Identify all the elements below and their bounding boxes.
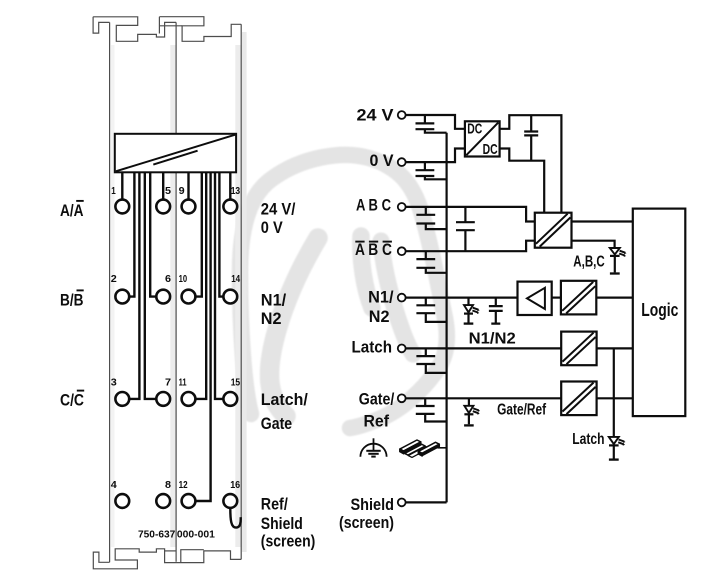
- node ABC: [398, 203, 406, 211]
- module top profile claw B bar left edge: [159, 17, 182, 34]
- svg-text:13: 13: [231, 185, 241, 197]
- node Shield: [398, 499, 406, 507]
- capacitor C3 after DC/DC: [524, 115, 538, 161]
- svg-text:2: 2: [111, 273, 117, 285]
- module part number 750-637 000-001: [138, 529, 215, 540]
- wire A-bar B-bar C-bar input: [405, 241, 534, 252]
- comparator U2: [518, 282, 552, 315]
- module internal wires: [122, 172, 240, 527]
- svg-text:N1/: N1/: [261, 290, 287, 309]
- wire Gate input: [405, 397, 561, 399]
- svg-text:11: 11: [179, 376, 187, 388]
- optocoupler U6 (Gate/Ref): [561, 382, 596, 416]
- wire DC/DC lower output rail: [500, 149, 545, 213]
- LED D2 N1/N2: [464, 298, 480, 324]
- wire opto U6 output to logic: [597, 397, 633, 399]
- svg-text:16: 16: [230, 479, 240, 491]
- wire stub terminal 9: [187, 172, 189, 200]
- wire to terminal 14: [219, 172, 223, 296]
- node Gate: [398, 394, 406, 402]
- svg-text:A B C: A B C: [355, 240, 392, 259]
- module bottom foot center notch top: [165, 550, 177, 552]
- terminal 10: [182, 290, 196, 304]
- terminal 7: [156, 392, 170, 406]
- module top profile claw B: [159, 17, 241, 42]
- shield clamp icon: [400, 440, 447, 457]
- svg-text:A B C: A B C: [356, 195, 391, 214]
- svg-text:3: 3: [111, 376, 117, 388]
- svg-text:1: 1: [111, 185, 116, 197]
- svg-text:Gate: Gate: [261, 414, 292, 433]
- module top profile claw A: [93, 17, 176, 42]
- wire to terminal 7: [145, 172, 157, 399]
- LED D3 Gate/Ref: [464, 398, 480, 425]
- svg-text:24 V: 24 V: [357, 105, 395, 124]
- svg-text:(screen): (screen): [261, 532, 316, 551]
- module bottom foot right notch: [181, 550, 204, 563]
- svg-text:24 V/: 24 V/: [261, 199, 296, 218]
- svg-text:N2: N2: [261, 309, 282, 328]
- wire DC/DC upper output to top rail: [500, 115, 562, 213]
- svg-text:Gate/: Gate/: [359, 389, 395, 408]
- module left wall: [109, 22, 111, 562]
- svg-text:N1/N2: N1/N2: [469, 330, 516, 347]
- terminal 15: [223, 392, 237, 406]
- svg-text:0 V: 0 V: [370, 151, 395, 170]
- svg-text:Latch: Latch: [572, 431, 604, 448]
- module shading: [111, 32, 247, 552]
- svg-text:0 V: 0 V: [261, 218, 283, 237]
- wire to terminal 3: [129, 172, 140, 399]
- svg-text:14: 14: [231, 273, 240, 285]
- capacitor C9 on Latch: [416, 348, 446, 373]
- svg-text:6: 6: [165, 273, 171, 285]
- terminal 8: [156, 494, 170, 508]
- module bottom foot profile: [93, 549, 241, 569]
- ground symbol: [360, 438, 386, 457]
- wire opto U5 output to logic: [597, 347, 633, 349]
- wire to terminal 12: [195, 172, 211, 501]
- node ABC-bar: [398, 247, 406, 255]
- capacitor C6 differential ABC: [456, 207, 475, 251]
- wire 0V input: [405, 149, 465, 163]
- svg-text:B/B: B/B: [60, 290, 84, 309]
- svg-text:7: 7: [165, 376, 171, 388]
- capacitor C10 on Gate: [416, 398, 447, 421]
- svg-text:N1/: N1/: [368, 288, 394, 307]
- terminal 5: [156, 200, 170, 214]
- svg-text:Logic: Logic: [641, 300, 678, 320]
- terminal 16: [223, 494, 237, 508]
- svg-text:Shield: Shield: [261, 514, 303, 533]
- node N1: [398, 294, 406, 302]
- node 24V: [398, 111, 406, 119]
- terminal 12: [182, 494, 196, 508]
- wire Latch input: [405, 347, 561, 349]
- wire 24V input: [405, 115, 465, 129]
- schematic wires: [405, 115, 632, 502]
- svg-text:750-637: 750-637: [138, 529, 176, 540]
- node Latch: [398, 345, 406, 353]
- wire stub terminal 5: [162, 172, 164, 200]
- wire to terminal 6: [150, 172, 157, 296]
- terminal 1: [115, 200, 129, 214]
- terminal 13: [223, 200, 237, 214]
- svg-text:N2: N2: [369, 307, 390, 326]
- schematic input labels: [339, 105, 395, 532]
- marking box with diagonal on module: [115, 134, 236, 173]
- DC/DC converter U1: [465, 121, 500, 158]
- wire opto U4 output to logic: [596, 297, 633, 299]
- optocoupler U4 (N1/N2): [561, 281, 596, 315]
- node 0V: [398, 158, 406, 166]
- terminal pin numbers: [111, 185, 241, 491]
- svg-text:10: 10: [179, 273, 188, 285]
- capacitor C1 on 24V: [416, 115, 447, 133]
- optocoupler U5 (Latch): [561, 332, 596, 366]
- svg-text:000-001: 000-001: [177, 529, 215, 540]
- svg-text:8: 8: [165, 479, 171, 491]
- terminal 14: [223, 290, 237, 304]
- shield hook on terminal 16: [230, 508, 240, 528]
- capacitor C8 after LED D2: [489, 298, 503, 324]
- svg-text:DC: DC: [467, 121, 482, 138]
- watermark logo: [240, 155, 447, 428]
- terminal 9: [182, 200, 196, 214]
- LED D4 Latch: [609, 437, 626, 460]
- optocoupler U3 (ABC): [535, 213, 572, 248]
- wire to terminal 2: [129, 172, 135, 296]
- vertical bus 0V return: [446, 133, 448, 503]
- terminal 2: [115, 290, 129, 304]
- capacitor C7 on N1: [416, 298, 446, 322]
- wire to terminal 15: [215, 172, 224, 399]
- svg-text:9: 9: [179, 185, 185, 197]
- capacitor C2 on 0V: [416, 162, 447, 179]
- module center divider: [175, 22, 177, 561]
- schematic terminal circles: [398, 111, 406, 506]
- wire to terminal 10: [195, 172, 202, 296]
- LED D1 A,B,C: [610, 248, 627, 274]
- wire to terminal 11: [195, 172, 206, 399]
- wire opto U3 lower output to LED D1: [572, 241, 615, 248]
- svg-text:C/C: C/C: [60, 391, 84, 410]
- terminal 11: [182, 392, 196, 406]
- svg-text:Latch/: Latch/: [261, 390, 308, 409]
- svg-text:4: 4: [111, 479, 117, 491]
- svg-text:A/A: A/A: [60, 201, 84, 220]
- wire stub terminal 13: [229, 172, 231, 200]
- wire stub terminal 1: [121, 172, 123, 200]
- terminal 6: [156, 290, 170, 304]
- svg-text:Gate/Ref: Gate/Ref: [497, 401, 547, 418]
- svg-text:(screen): (screen): [339, 513, 394, 532]
- module right wall: [240, 24, 242, 559]
- wire opto U3 upper output to logic: [572, 220, 633, 222]
- wire latch branch down to LED D4: [613, 348, 615, 436]
- svg-text:Latch: Latch: [352, 337, 393, 356]
- capacitor C4 on ABC: [416, 207, 446, 229]
- svg-text:Shield: Shield: [351, 495, 395, 514]
- svg-text:Ref: Ref: [364, 412, 390, 431]
- terminal circles: [115, 200, 237, 508]
- module top profile left hook: [93, 17, 110, 33]
- svg-text:5: 5: [165, 185, 171, 197]
- svg-text:15: 15: [231, 376, 241, 388]
- terminal 3: [115, 392, 129, 406]
- Logic block: [633, 209, 686, 417]
- svg-text:12: 12: [179, 479, 188, 491]
- wire A B C input: [405, 207, 534, 222]
- wire Shield input to bus: [405, 501, 446, 503]
- terminal 4: [115, 494, 129, 508]
- wire comparator to opto U4: [552, 297, 561, 299]
- svg-text:Ref/: Ref/: [261, 494, 288, 513]
- svg-text:A,B,C: A,B,C: [573, 254, 604, 271]
- capacitor C5 on A-bar B-bar C-bar: [416, 251, 446, 273]
- wire N1 input to comparator: [405, 297, 519, 299]
- svg-text:DC: DC: [483, 141, 498, 158]
